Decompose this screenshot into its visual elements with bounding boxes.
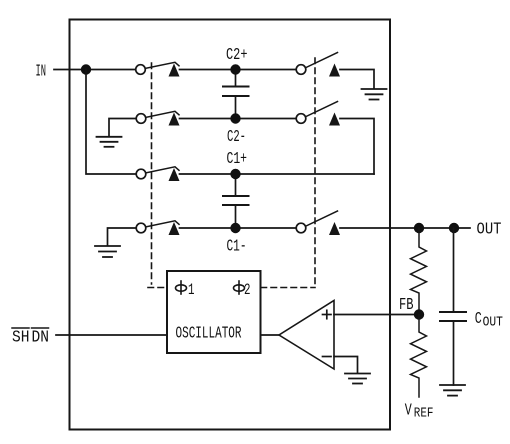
- comparator U2: [279, 301, 334, 370]
- switch S3 contact circle: [136, 169, 146, 179]
- label SHDN with overline: [12, 329, 49, 348]
- switch S4 pole triangle: [169, 222, 180, 235]
- switch S6 lever: [306, 102, 338, 117]
- svg-text:V: V: [405, 402, 413, 421]
- wire row4 to C1- and right switch: [180, 227, 297, 229]
- switch S6 contact circle: [296, 114, 306, 124]
- svg-text:FB: FB: [399, 296, 414, 315]
- svg-text:2: 2: [244, 281, 251, 299]
- switch S3 lever: [147, 167, 180, 173]
- wire row1 to C2+ and right switch: [180, 69, 297, 71]
- node C2- junction: [230, 113, 240, 123]
- capacitor C2: [223, 70, 249, 119]
- svg-text:C2+: C2+: [226, 46, 248, 65]
- switch S2 pole triangle: [169, 113, 180, 126]
- svg-text:OUT: OUT: [477, 221, 502, 240]
- wire row4 to OUT: [340, 227, 470, 229]
- svg-text:OUT: OUT: [483, 315, 503, 330]
- node C2+ junction: [230, 64, 240, 74]
- IC outer box: [70, 20, 391, 430]
- switch S1 contact circle: [136, 65, 146, 75]
- switch S6 pole triangle: [329, 113, 340, 126]
- wire comparator minus input to ground: [334, 357, 358, 374]
- node OUT junction R1: [414, 223, 424, 233]
- label phi1: [176, 281, 187, 294]
- capacitor COUT: [440, 228, 466, 385]
- svg-text:1: 1: [188, 281, 195, 299]
- svg-text:C2-: C2-: [227, 128, 246, 147]
- phase 1 dashed control line: [148, 63, 166, 288]
- label COUT: [475, 310, 503, 330]
- label phi2: [234, 281, 245, 294]
- svg-text:C1-: C1-: [227, 238, 247, 257]
- svg-text:DN: DN: [32, 329, 50, 348]
- wire row2 ground lead: [109, 119, 136, 137]
- phase 2 dashed control line: [261, 58, 315, 288]
- ground comparator: [345, 374, 370, 384]
- comparator plus sign: [323, 310, 332, 318]
- wire row3 to C1+ and loop: [180, 173, 375, 175]
- overline bars for SHDN: [12, 327, 49, 329]
- wire oscillator to comparator: [261, 334, 280, 336]
- svg-text:OSCILLATOR: OSCILLATOR: [176, 325, 242, 344]
- switch S2 lever: [147, 111, 180, 117]
- wire SHDN lead: [56, 334, 167, 336]
- node FB junction: [414, 309, 424, 319]
- resistor R2: [411, 315, 427, 398]
- ground row4 left: [95, 246, 120, 257]
- switch S5 pole triangle: [329, 64, 340, 77]
- switch S5 contact circle: [296, 65, 306, 75]
- wire row4 ground lead: [108, 228, 137, 246]
- switch S3 pole triangle: [169, 168, 180, 181]
- comparator minus sign: [323, 356, 332, 358]
- svg-text:SH: SH: [12, 329, 30, 348]
- node C1- junction: [230, 223, 240, 233]
- wire IN vertical to row3: [86, 70, 136, 175]
- switch S7 pole triangle: [329, 222, 340, 235]
- wire row1 right to ground: [340, 70, 374, 89]
- ground row1 right: [362, 89, 387, 100]
- switch S4 lever: [147, 221, 180, 227]
- node C1+ junction: [230, 169, 240, 179]
- label VREF: [405, 402, 434, 422]
- wire row2 right loop down to row3: [340, 119, 374, 175]
- wire row2 to C2- and right switch: [180, 118, 297, 120]
- node IN junction: [81, 64, 91, 74]
- switch S7 contact circle: [296, 223, 306, 233]
- oscillator block U1: [167, 271, 261, 353]
- switch S5 lever: [306, 53, 338, 68]
- capacitor C1: [223, 174, 249, 228]
- svg-text:IN: IN: [36, 63, 47, 82]
- ground COUT: [440, 385, 465, 396]
- switch S1 lever: [146, 62, 179, 68]
- svg-text:C1+: C1+: [227, 150, 248, 169]
- svg-text:C: C: [475, 310, 482, 329]
- wire comparator plus input to FB: [334, 314, 419, 316]
- svg-text:REF: REF: [414, 406, 434, 421]
- node OUT junction COUT: [449, 223, 459, 233]
- ground row2 left: [97, 137, 122, 147]
- switch S4 contact circle: [136, 223, 146, 233]
- wire IN lead: [54, 69, 136, 71]
- switch S1 pole triangle: [169, 64, 180, 77]
- resistor R1: [411, 228, 427, 315]
- switch S7 lever: [306, 211, 338, 226]
- switch S2 contact circle: [136, 114, 146, 124]
